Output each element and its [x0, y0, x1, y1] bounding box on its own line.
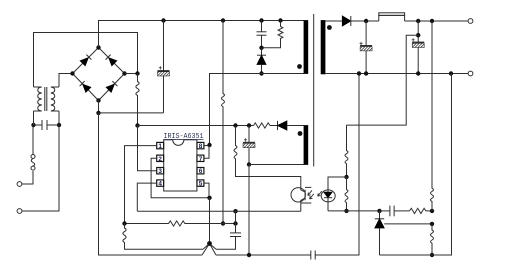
wire pin8 to drain column	[204, 145, 210, 147]
resistor R9 (LED parallel)	[345, 177, 348, 211]
resistor R6 (comp horizontal)	[125, 221, 236, 226]
node bridge top	[96, 45, 100, 49]
capacitor C2 (bulk electrolytic)	[158, 21, 170, 113]
wire choke left leg top to bridge right node	[34, 33, 138, 88]
wire pin3 to VCC junction	[138, 126, 157, 171]
wire secondary ground rail	[325, 73, 468, 75]
wire pin5 to ground node	[204, 183, 209, 198]
resistor R1 (startup)	[136, 74, 139, 126]
node VCC aux cap	[247, 123, 251, 127]
node VCC cap tap	[233, 123, 237, 127]
node T1 aux polarity dot	[298, 131, 303, 136]
ground star junction	[202, 241, 216, 255]
terminal J4 (V- out)	[468, 71, 473, 76]
svg-text:2: 2	[158, 156, 162, 163]
bridge rectifier arm wires	[73, 48, 125, 101]
capacitor C7 (output electrolytic 1)	[359, 21, 372, 74]
svg-text:5: 5	[199, 181, 203, 188]
terminal J3 (V+ out)	[468, 19, 473, 24]
resistor R8 (LED bias upper)	[345, 125, 348, 177]
wire LED anode	[328, 177, 347, 190]
node LED anode tap	[344, 175, 348, 179]
node aux return	[247, 162, 251, 166]
node output cap2 top	[416, 19, 420, 23]
node output divider top	[430, 19, 434, 23]
capacitor C4 (clamp)	[257, 21, 267, 48]
capacitor C5 (comp)	[216, 224, 241, 250]
svg-text:7: 7	[199, 156, 203, 163]
pin 4	[157, 180, 164, 188]
inductor L2 (output bead)	[379, 13, 405, 21]
node pin1 sense	[122, 221, 126, 225]
wire secondary top to output diode	[325, 20, 342, 22]
shunt regulator U3 (TL431)	[375, 211, 384, 255]
wire pin2 to ground net	[151, 158, 209, 198]
wire pin1 to startup sense column	[125, 146, 157, 224]
node output cap1 top	[364, 19, 368, 23]
diode D5 (clamp)	[257, 48, 266, 74]
pin 6	[197, 168, 204, 176]
wire bulk cap bottom to return	[99, 112, 164, 114]
wire choke right leg to bridge left node	[59, 74, 73, 88]
node X-cap right	[57, 123, 61, 127]
node VCC junction	[135, 123, 139, 127]
node gnd rail cap1	[364, 71, 368, 75]
node drain rail clamp	[259, 71, 263, 75]
wire bottom rail right segment	[216, 254, 311, 256]
resistor R10 (comp series)	[410, 208, 433, 213]
node gnd rail Y-link	[357, 71, 361, 75]
opto U2 LED	[321, 190, 335, 211]
capacitor C3 (VCC electrolytic)	[243, 126, 255, 165]
wire pin4 to feedback line	[137, 183, 156, 211]
node startup column top	[135, 71, 139, 75]
wire primary return down to bottom rail	[99, 113, 203, 255]
node divider mid ref	[430, 222, 434, 226]
opto U2 phototransistor	[291, 187, 311, 211]
svg-text:1: 1	[158, 143, 162, 150]
svg-text:8: 8	[199, 143, 203, 150]
node comp cap top	[233, 209, 237, 213]
wire ground node down to star point	[209, 198, 211, 244]
pin 8	[197, 142, 204, 150]
wire TL431 ref	[384, 223, 432, 225]
wire pin7 to drain column	[204, 146, 209, 159]
node TL431 cathode	[377, 209, 381, 213]
diode D1 (bridge upper-left)	[80, 55, 91, 66]
svg-text:IRIS-A6351: IRIS-A6351	[164, 133, 205, 141]
node comp line left	[221, 221, 225, 225]
svg-text:3: 3	[158, 168, 162, 175]
wire feedback line pin4 to opto emitter	[137, 210, 300, 212]
pin 5	[197, 180, 204, 188]
resistor R5 (opto pull-up from VCC)	[234, 126, 301, 189]
resistor R11 (divider upper)	[431, 21, 434, 211]
wire choke left leg lower	[33, 111, 35, 125]
wire bead to terminal	[405, 20, 469, 22]
node comp cap mid	[233, 221, 237, 225]
svg-text:4: 4	[158, 181, 162, 188]
node top rail clamp cap	[259, 18, 263, 22]
wire sense tap to LED bias line	[347, 35, 419, 125]
node gnd rail cap2	[416, 71, 420, 75]
transformer T1 primary winding	[304, 21, 308, 74]
wire TL431 anode rail to gnd column	[380, 74, 452, 256]
node top rail R-OCP column	[221, 18, 225, 22]
diode D4 (bridge lower-right)	[106, 81, 117, 92]
pin 1	[157, 142, 164, 150]
node gnd rail sense	[449, 71, 453, 75]
wire DC+ top rail	[99, 21, 305, 48]
wire aux cap ground	[248, 165, 250, 256]
wire switch-node rail	[210, 74, 305, 146]
resistor R7 (sense filter)	[123, 224, 203, 250]
node X-cap left	[31, 123, 35, 127]
node bridge right	[122, 71, 126, 75]
terminal J2 (AC neutral)	[17, 209, 22, 214]
pin 7	[197, 155, 204, 163]
diode D3 (bridge lower-left)	[80, 81, 91, 92]
node bridge bottom	[96, 98, 100, 102]
node LED cathode line	[344, 209, 348, 213]
node bridge left	[70, 71, 74, 75]
resistor R2 (clamp)	[262, 21, 283, 48]
wire J1 to fuse	[22, 171, 33, 184]
node sense tap	[416, 33, 420, 37]
wire fuse to X-cap node	[32, 125, 34, 155]
inductor L1 (common-mode choke)	[34, 87, 60, 111]
node primary return	[96, 111, 100, 115]
node bottom rail aux cap	[247, 253, 251, 257]
wire comp cap link	[235, 211, 237, 223]
resistor R4 (OCP program, top rail to comp)	[222, 21, 225, 224]
pin 2	[157, 155, 164, 163]
wire VCC line	[138, 125, 254, 127]
fuse F1	[31, 155, 35, 171]
capacitor C9 (comp series)	[380, 206, 410, 217]
transformer T1 aux winding	[304, 126, 308, 165]
node T1 secondary polarity dot	[327, 25, 332, 30]
pin 3	[157, 168, 164, 176]
svg-text:6: 6	[199, 168, 203, 175]
wire choke right leg lower	[58, 111, 60, 125]
resistor R12 (divider lower)	[431, 224, 434, 255]
node top rail clamp resistor	[278, 18, 282, 22]
op-amp U1 IRIS-A6351 body	[164, 140, 197, 191]
wire bridge right node to startup column	[125, 73, 138, 75]
capacitor C8 (output electrolytic 2)	[411, 21, 424, 74]
node top rail bulk cap	[161, 18, 165, 22]
capacitor C6 (Y-cap)	[311, 74, 359, 260]
transformer T1 secondary winding	[321, 21, 325, 74]
transformer T1 core	[313, 14, 315, 167]
opto U2 light arrows	[308, 190, 322, 199]
node secondary gnd bottom	[430, 253, 434, 257]
diode D6 (output rectifier)	[342, 16, 379, 26]
node ground pins junction	[207, 196, 211, 200]
wire J2 up right leg	[22, 125, 59, 211]
capacitor C1 (X-cap)	[34, 120, 60, 130]
wire bridge bottom to gnd junction	[98, 101, 100, 113]
node clamp RC junction	[259, 46, 263, 50]
resistor R3 (VCC series)	[254, 123, 270, 128]
node T1 primary polarity dot	[297, 64, 302, 69]
diode D7 (VCC rectifier)	[270, 121, 304, 130]
terminal J1 (AC line)	[17, 182, 22, 187]
node drain pin8	[207, 143, 211, 147]
diode D2 (bridge upper-right)	[106, 55, 117, 66]
wire aux winding bottom	[249, 164, 304, 166]
wire LED cathode comp line	[328, 210, 380, 212]
node divider mid RC	[430, 209, 434, 213]
